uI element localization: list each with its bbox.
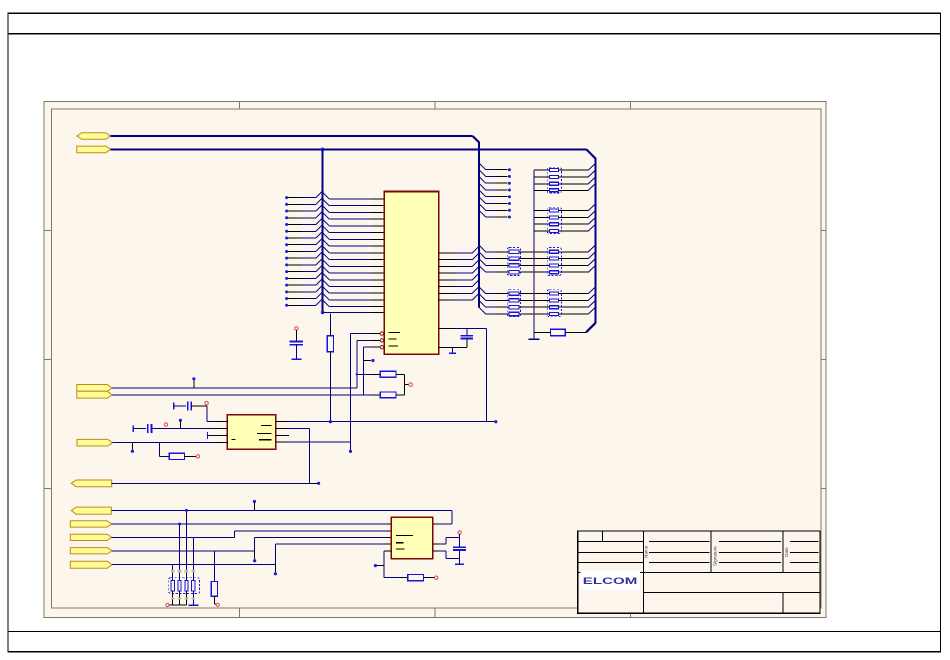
RP1 pin4 ground bar: [188, 591, 198, 605]
net11 stub dot: [274, 565, 277, 576]
ELCOM logo: [580, 571, 640, 590]
op-amp U3 body: [391, 517, 433, 559]
dashed outline RN4: [547, 207, 561, 233]
vertical net V1: [533, 170, 535, 339]
wire bubble pin3 drop: [364, 347, 371, 395]
title block outline: [578, 531, 820, 613]
port P11: [70, 561, 112, 568]
wire net7 top row: [111, 509, 452, 511]
net V1 tiny junctions: [533, 251, 535, 315]
wire U1 ground pin: [439, 347, 467, 353]
wire U3 right pin2 to C5 top: [433, 538, 460, 545]
wire net9 with jog: [112, 531, 392, 538]
wire net8: [112, 523, 392, 525]
port P3: [77, 385, 112, 392]
port P6: [71, 480, 111, 487]
wire U2 pin8: [276, 441, 351, 443]
net7 junction stub dot: [253, 500, 256, 511]
U2 pin7 stub: [276, 434, 289, 436]
U2 pin-name dashes: [232, 426, 272, 440]
port P8: [70, 521, 111, 527]
sheet inner border: [52, 109, 821, 608]
junction dot on U2 pin2 net: [179, 419, 182, 429]
net6 end stub dot: [310, 482, 321, 485]
wire net1 horizontal: [111, 135, 473, 137]
junction stub on net5: [131, 442, 134, 452]
RP1 junction dots: [178, 509, 188, 526]
svg-text:Signature: Signature: [713, 546, 718, 566]
op-amp U2 body: [227, 415, 276, 449]
U3 bottom-left pin net: [384, 551, 400, 578]
bus B3 vertical drop: [322, 149, 324, 312]
capacitor C2: [461, 328, 473, 347]
resistor R3: [357, 371, 405, 377]
port P9: [70, 534, 111, 540]
junction stub on net3: [192, 377, 195, 388]
no-ERC circle C4: [164, 423, 167, 426]
resistor R6 vertical: [211, 551, 219, 607]
resistor R4: [364, 392, 405, 398]
capacitor C3: [174, 401, 207, 410]
R3-R4 common node with no-ERC circle: [405, 374, 413, 395]
wire C3 to U2 pin1: [207, 406, 228, 422]
junction stub dot near U3: [374, 564, 384, 567]
wire net1 bus entry bend: [473, 136, 479, 142]
svg-text:ELCOM: ELCOM: [583, 576, 638, 587]
junction R2 bottom: [329, 420, 332, 423]
wire U2 pin5 to node: [276, 421, 487, 423]
dashed outline RN1: [507, 248, 520, 276]
wire net2 bend to bus B2: [586, 149, 595, 158]
resistor R7: [400, 575, 438, 581]
dashed outline RN6: [547, 290, 561, 317]
wire U1 power pin to C2: [439, 327, 487, 329]
wire net4: [112, 394, 364, 396]
bus B2 vertical right: [594, 158, 596, 323]
resistor network RN3/RN4/RN5/RN6 right column: [534, 163, 596, 315]
resistor R1 pull-down: [534, 323, 596, 336]
resistor pack RP1 vertical resistors: [171, 510, 195, 591]
left address fan wires into bus B3 and U1 pins: [285, 191, 384, 307]
title block grid lines: [578, 531, 820, 613]
wire stub U2 pin3: [208, 432, 228, 439]
dashed outline RN2: [507, 290, 520, 317]
U1 inverted control pins with bubbles: [371, 332, 384, 349]
port P2: [77, 146, 111, 153]
dashed outline RN5: [547, 248, 561, 276]
no-ERC circle C3: [205, 402, 208, 405]
wire U3 right pin3 to C5 bottom: [433, 551, 460, 559]
resistor R5: [160, 442, 200, 459]
port P7: [71, 507, 111, 514]
wire bus-bottom to U1 pin: [324, 311, 384, 313]
wire bubble pin2 drop: [357, 340, 371, 388]
resistor network RN1/RN2 middle column: [479, 245, 534, 316]
resistor R2 vertical: [327, 314, 333, 422]
junction bus B3 bottom: [321, 311, 325, 315]
port P5: [77, 439, 113, 446]
svg-text:Name: Name: [644, 545, 649, 558]
bus B2 bottom bend: [586, 323, 595, 332]
U1 right data pins into bus B1: [439, 246, 479, 300]
dashed outline RP1: [169, 578, 200, 594]
svg-text:Date: Date: [784, 547, 789, 557]
port P4: [77, 391, 112, 398]
wire net2 horizontal: [111, 148, 587, 150]
wire U2 pin6 down: [276, 429, 310, 484]
bus B1 vertical: [478, 142, 480, 308]
junction R3 tap: [356, 373, 358, 375]
bus B1 fan-out wires with terminal dots: [479, 163, 511, 219]
wire net5 to U2 pin4: [113, 441, 228, 443]
wire net10 with jog: [112, 538, 391, 551]
wire net down to U2 row: [486, 328, 488, 421]
op-amp U1 main IC body: [384, 192, 438, 355]
sheet border zone ticks: [44, 102, 826, 618]
wire net3: [112, 387, 357, 389]
title block rotated labels: [644, 545, 790, 566]
RP1 tiny designator texts: [171, 570, 195, 599]
capacitor C5 with no-ERC and ground bar: [453, 531, 466, 565]
RP1 bottom common rail with no-ERC circle: [166, 591, 187, 607]
schematic sheet background: [44, 102, 826, 618]
net V1 end bar: [529, 338, 540, 340]
junction stub right of corner: [487, 420, 498, 423]
wire bubble pin1 drop: [351, 334, 372, 450]
U3 pin-name dashes: [396, 535, 413, 549]
wire net7 wrap to U3 right pin: [433, 510, 452, 524]
port P1: [77, 133, 111, 140]
dashed outline RN3: [547, 167, 561, 193]
net10 stub dot: [253, 551, 256, 562]
junction on net2: [321, 148, 325, 152]
U1 pin-name dashes: [388, 332, 400, 346]
wire net11 with jog: [112, 544, 391, 564]
port P10: [70, 548, 112, 554]
junction dot below: [349, 450, 352, 453]
wire net6: [112, 482, 310, 484]
capacitor C1 with no-ERC marker: [290, 327, 304, 360]
net stub with dot: [364, 359, 375, 362]
capacitor C4: [133, 424, 227, 433]
